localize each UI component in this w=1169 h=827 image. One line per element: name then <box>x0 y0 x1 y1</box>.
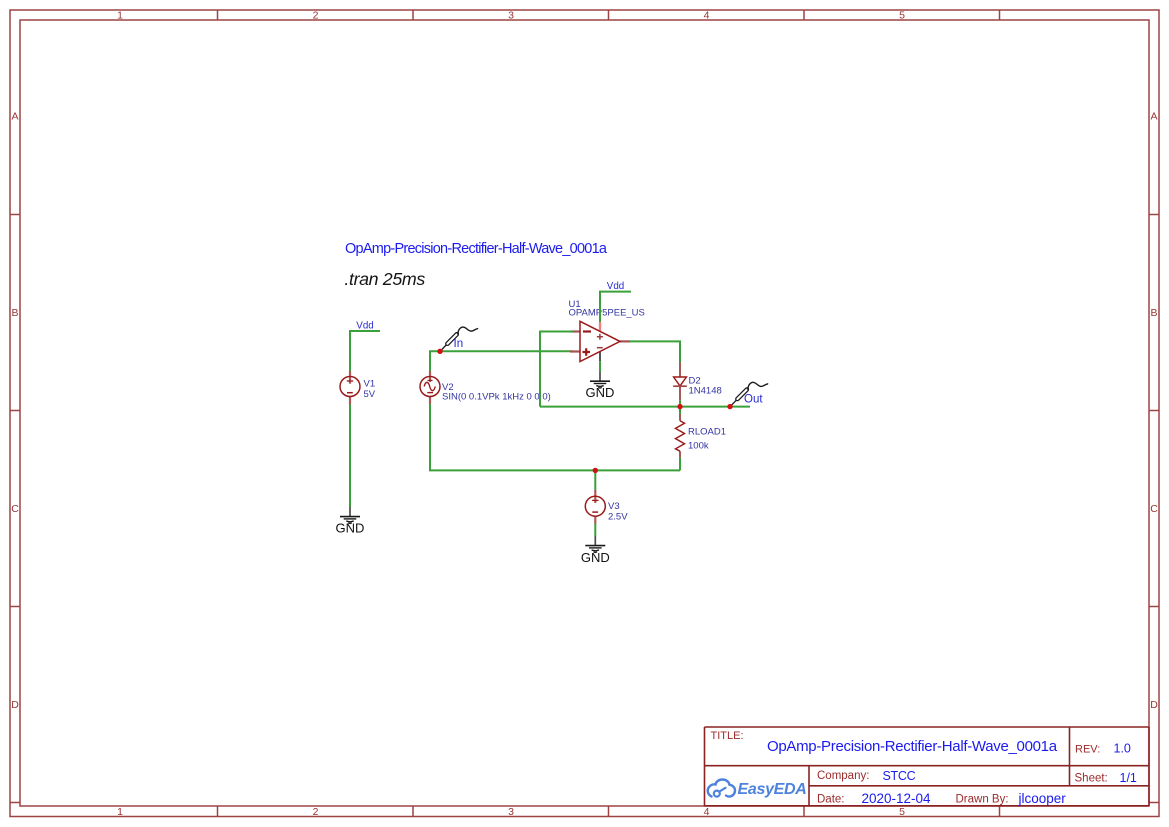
ruler ticks bottom <box>218 806 1000 817</box>
svg-text:1: 1 <box>117 10 123 22</box>
svg-text:D: D <box>1150 699 1158 711</box>
voltage source V3 <box>585 490 628 524</box>
svg-text:RLOAD1: RLOAD1 <box>688 427 726 438</box>
svg-text:C: C <box>11 503 19 515</box>
ground GND (V1) <box>336 507 365 535</box>
svg-text:4: 4 <box>704 10 710 22</box>
svg-text:A: A <box>1150 110 1157 122</box>
svg-text:Drawn By:: Drawn By: <box>956 794 1009 806</box>
svg-text:GND: GND <box>581 550 610 565</box>
wire feedback loop <box>540 332 573 407</box>
svg-text:3: 3 <box>508 806 514 818</box>
junction diode/rail <box>677 404 682 409</box>
net flag Vdd (V1) <box>350 321 380 332</box>
wire V1 top <box>349 330 351 371</box>
wire V2 bottom rail <box>430 404 680 470</box>
svg-text:2020-12-04: 2020-12-04 <box>862 791 932 806</box>
svg-text:1/1: 1/1 <box>1120 771 1137 785</box>
probe pen icon Out <box>731 382 769 406</box>
svg-text:EasyEDA: EasyEDA <box>738 781 807 798</box>
svg-text:Sheet:: Sheet: <box>1075 773 1108 785</box>
svg-text:OPAMP5PEE_US: OPAMP5PEE_US <box>569 308 645 319</box>
wire U1 output to diode <box>630 341 680 362</box>
title block lines <box>705 727 1150 806</box>
wire V3 top <box>594 470 596 490</box>
ground GND (V3) <box>581 536 610 565</box>
svg-text:100k: 100k <box>688 440 709 451</box>
resistor RLOAD1 <box>676 414 727 458</box>
svg-text:B: B <box>11 307 18 319</box>
voltage source V2 (SIN) <box>420 371 551 404</box>
svg-text:STCC: STCC <box>883 769 916 783</box>
svg-text:2: 2 <box>313 806 319 818</box>
ruler numbers bottom <box>117 806 905 818</box>
wire U1 vdd <box>599 291 601 322</box>
svg-text:5: 5 <box>899 10 905 22</box>
svg-text:OpAmp-Precision-Rectifier-Half: OpAmp-Precision-Rectifier-Half-Wave_0001… <box>767 738 1058 755</box>
ruler numbers top <box>117 10 905 22</box>
svg-text:REV:: REV: <box>1075 744 1100 756</box>
svg-text:.tran 25ms: .tran 25ms <box>344 269 425 289</box>
svg-text:Company:: Company: <box>817 770 869 782</box>
ruler ticks top <box>218 10 1000 20</box>
svg-text:Vdd: Vdd <box>356 321 373 332</box>
ruler ticks left <box>10 215 20 803</box>
ruler ticks right <box>1149 215 1159 803</box>
diode D2 <box>673 362 722 400</box>
wire resistor bottom <box>679 458 681 471</box>
svg-text:D: D <box>11 699 19 711</box>
wire U1 gnd <box>599 361 601 371</box>
op-amp U1 <box>570 321 630 361</box>
svg-text:1N4148: 1N4148 <box>689 386 722 397</box>
svg-text:5V: 5V <box>364 389 376 400</box>
svg-text:In: In <box>454 338 464 350</box>
ruler letters left <box>11 110 19 711</box>
wire V3 bottom <box>594 524 596 537</box>
svg-text:1: 1 <box>117 806 123 818</box>
svg-text:3: 3 <box>508 10 514 22</box>
net flag Vdd (U1) <box>600 281 631 292</box>
wire rail to resistor <box>679 407 681 414</box>
svg-text:B: B <box>1150 307 1157 319</box>
EasyEDA logo <box>708 780 807 798</box>
op-amp U1 labels <box>569 299 645 318</box>
svg-text:4: 4 <box>704 806 710 818</box>
svg-text:TITLE:: TITLE: <box>711 730 744 742</box>
svg-text:OpAmp-Precision-Rectifier-Half: OpAmp-Precision-Rectifier-Half-Wave_0001… <box>345 241 608 257</box>
svg-text:GND: GND <box>586 385 615 400</box>
svg-text:V1: V1 <box>364 378 376 389</box>
svg-text:1.0: 1.0 <box>1114 742 1131 756</box>
junction node Out <box>727 404 732 409</box>
voltage source V1 <box>340 371 376 405</box>
wire diode to rail <box>679 400 681 406</box>
wire V2 top to node In <box>430 351 573 371</box>
svg-text:D2: D2 <box>689 375 701 386</box>
svg-text:Vdd: Vdd <box>607 281 624 292</box>
svg-text:C: C <box>1150 503 1158 515</box>
svg-text:SIN(0 0.1VPk 1kHz 0 0 0): SIN(0 0.1VPk 1kHz 0 0 0) <box>442 391 551 402</box>
svg-text:jlcooper: jlcooper <box>1018 791 1067 806</box>
svg-text:5: 5 <box>899 806 905 818</box>
wire output rail <box>540 406 750 408</box>
probe pen icon In <box>441 327 479 351</box>
svg-text:2: 2 <box>313 10 319 22</box>
svg-text:Out: Out <box>744 393 763 405</box>
svg-text:A: A <box>11 110 18 122</box>
svg-text:Date:: Date: <box>817 794 845 806</box>
junction node In <box>437 349 442 354</box>
svg-text:2.5V: 2.5V <box>608 511 628 522</box>
ruler letters right <box>1150 110 1158 711</box>
svg-text:GND: GND <box>336 520 365 535</box>
wire V1 bottom <box>349 405 351 508</box>
junction V3 tap <box>593 468 598 473</box>
ground GND (U1) <box>586 372 615 401</box>
